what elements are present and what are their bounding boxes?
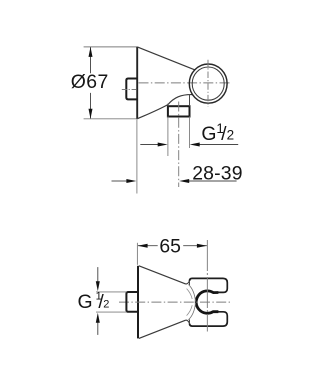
svg-text:2: 2 <box>103 298 109 310</box>
svg-text:G: G <box>78 291 93 313</box>
svg-text:65: 65 <box>159 236 181 258</box>
svg-text:Ø67: Ø67 <box>71 71 109 93</box>
svg-text:28-39: 28-39 <box>192 163 243 185</box>
svg-text:G: G <box>201 123 216 145</box>
svg-text:2: 2 <box>227 128 235 143</box>
